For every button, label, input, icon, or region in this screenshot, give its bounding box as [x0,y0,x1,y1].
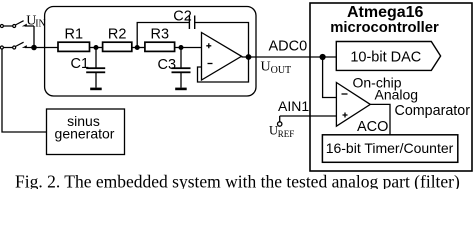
wire: sinus generator feed [2,49,47,132]
wire: top switch to UIN node [3,26,34,48]
comparator triangle [336,83,370,127]
node UIN junction dot [31,45,37,51]
svg-text:R3: R3 [151,26,170,42]
wire: C1 stub [95,48,97,88]
svg-text:ADC0: ADC0 [269,38,308,54]
capacitor C3 ground bar [175,88,187,91]
svg-text:OUT: OUT [271,65,292,76]
UREF terminal circle [278,122,282,126]
wire: bottom switch to node A [3,47,34,49]
svg-text:Analog: Analog [375,87,419,103]
switch S2 arrowhead [22,45,27,48]
resistor R2 [103,42,132,51]
node op-amp output junction dot [246,54,252,60]
sinus generator box [47,109,125,155]
wire: comparator output to timer [370,104,390,134]
comparator + input sign [343,113,348,118]
wire: AIN1 to comparator + input [280,116,337,122]
svg-text:microcontroller: microcontroller [330,20,439,36]
svg-text:R2: R2 [108,26,127,42]
wire: R1 to R2 [90,47,103,49]
filter box (analog part) [45,7,256,97]
svg-text:C2: C2 [173,9,192,25]
svg-text:U: U [261,59,271,74]
capacitor C3 plates [172,67,191,69]
capacitor C1 plates [86,67,105,69]
resistor R3 [145,42,175,51]
switch S1 (top) [0,25,3,28]
wire: main rail node A to R1 [34,47,58,49]
node R3/C3 junction dot [179,45,184,50]
capacitor C1 ground bar [90,88,102,91]
wire: junction down to comparator - input [323,57,337,98]
microcontroller box U2 [310,3,472,171]
svg-text:16-bit Timer/Counter: 16-bit Timer/Counter [326,140,454,156]
svg-text:U: U [269,124,278,138]
op-amp - input sign [208,63,213,65]
node ADC0 junction dot [320,54,326,60]
resistor R1 [58,42,90,51]
svg-text:10-bit DAC: 10-bit DAC [350,50,421,66]
switch S2 (bottom) [0,46,3,49]
16-bit Timer/Counter box [322,135,457,163]
10-bit DAC pentagon [336,42,440,71]
svg-text:C1: C1 [71,56,90,72]
node R1/R2 junction dot [94,45,99,50]
svg-text:Comparator: Comparator [395,103,471,119]
wire: C3 stub [180,48,182,88]
svg-text:Atmega16: Atmega16 [347,4,424,21]
capacitor C2 plates [189,16,190,30]
svg-text:REF: REF [278,129,295,139]
svg-text:ACO: ACO [357,119,388,135]
op-amp + input sign [206,43,211,48]
comparator - input sign [342,93,348,95]
svg-text:Fig. 2. The embedded system wi: Fig. 2. The embedded system with the tes… [15,172,460,190]
node R2/R3 junction dot [135,45,140,50]
svg-text:IN: IN [35,18,46,29]
wire: R2 to R3 [132,47,145,49]
switch S1 arrowhead [22,24,27,27]
wire: C2 tap and feedback top [137,23,248,58]
wire: R3 to op-amp + input [175,47,202,49]
svg-text:generator: generator [55,125,115,141]
wire: op-amp feedback loop to - input [198,57,249,82]
svg-text:C3: C3 [158,57,177,73]
svg-text:AIN1: AIN1 [278,98,309,114]
svg-text:R1: R1 [65,26,84,42]
op-amp U1 triangle [202,33,242,81]
wire: op-amp output ADC0 to DAC [242,56,337,58]
